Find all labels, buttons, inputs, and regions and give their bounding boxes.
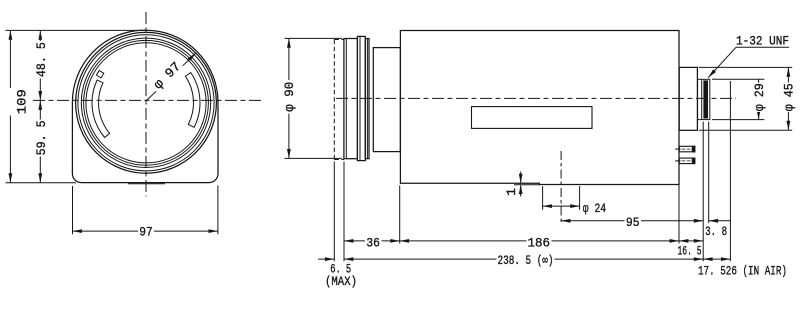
- ext thread start plane: [702, 122, 704, 262]
- dimension phi90: [288, 38, 290, 158]
- bezel ring 4: [84, 40, 209, 165]
- mid barrel: [373, 48, 400, 152]
- text phi29: [753, 83, 766, 113]
- left arc slot: [92, 80, 110, 138]
- ext tick pad bottom: [514, 184, 540, 186]
- leader 1-32 UNF underline: [736, 46, 789, 48]
- text 97: [138, 225, 154, 237]
- main body with bottom pad step: [400, 31, 679, 185]
- text phi45: [782, 83, 795, 113]
- svg-text:3. 8: 3. 8: [705, 224, 727, 239]
- trim ring: [365, 39, 369, 159]
- ext line 97 right: [217, 186, 219, 235]
- ext phi24 left: [542, 186, 544, 210]
- svg-text:95: 95: [626, 215, 640, 230]
- centerline front vertical: [145, 12, 147, 197]
- dimension phi29: [758, 79, 760, 119]
- svg-text:59. 5: 59. 5: [34, 120, 49, 155]
- text 186: [527, 236, 552, 248]
- ext line 97 left: [72, 186, 74, 234]
- ext phi90 top: [285, 37, 343, 39]
- ext phi29 top: [712, 78, 764, 80]
- svg-text:16. 5: 16. 5: [678, 244, 702, 259]
- front view body outline: [72, 30, 218, 182]
- thread barrel 1-32 UNF: [698, 79, 710, 119]
- dimension 3.8 tail: [709, 220, 731, 222]
- svg-text:48. 5: 48. 5: [34, 42, 49, 77]
- text 95: [625, 216, 642, 228]
- pin 2: [675, 158, 695, 164]
- svg-text:186: 186: [528, 236, 551, 251]
- pin 1: [675, 146, 695, 152]
- label plate: [472, 107, 593, 129]
- phi90 barrel: [357, 36, 365, 160]
- svg-text:φ 45: φ 45: [782, 83, 797, 111]
- bezel ring 5: [86, 43, 206, 163]
- dimension 109: [9, 30, 11, 182]
- svg-text:(MAX): (MAX): [325, 274, 357, 289]
- phi90 barrel inner line: [359, 36, 361, 160]
- dimension 1 upper arrow: [520, 172, 522, 184]
- rear flange: [679, 67, 697, 130]
- ext phi24 right: [579, 186, 581, 210]
- dimension phi45: [787, 67, 789, 130]
- ext flange left: [678, 130, 680, 243]
- right arc slot: [185, 73, 200, 128]
- svg-text:φ 90: φ 90: [282, 82, 297, 112]
- svg-text:17. 526 (IN AIR): 17. 526 (IN AIR): [698, 264, 787, 279]
- ext phi90 bottom: [285, 157, 343, 159]
- ext phi45 top: [699, 66, 792, 68]
- side view dashed protruded element: [334, 40, 344, 160]
- svg-text:97: 97: [139, 224, 153, 239]
- centerline side axis: [336, 97, 736, 99]
- centerline phi24 slot: [560, 151, 562, 225]
- dimension 36: [344, 240, 400, 242]
- thread start line: [701, 79, 703, 119]
- ext 6.5 right / front face: [343, 162, 345, 262]
- bezel chamfer line: [345, 39, 347, 159]
- ext 6.5 left: [333, 162, 335, 262]
- ext phi29 bottom: [712, 119, 764, 121]
- phi97 leader line: [146, 53, 196, 101]
- ext line bottom of front view: [6, 182, 77, 184]
- thread hatching: [703, 80, 708, 118]
- svg-text:36: 36: [366, 235, 380, 250]
- centerline front horizontal: [33, 99, 262, 101]
- dimension 48.5: [39, 30, 41, 100]
- ext thread end plane: [708, 122, 710, 223]
- ext body front: [399, 186, 401, 244]
- svg-text:238. 5 (∞): 238. 5 (∞): [498, 253, 554, 268]
- text 238.5 inf: [497, 253, 555, 265]
- dimension 6.5 arrow: [318, 258, 334, 260]
- dimension 1 lower arrow: [520, 185, 522, 197]
- dimension phi24: [543, 205, 580, 207]
- svg-text:φ 29: φ 29: [752, 83, 767, 111]
- text 59.5: [34, 120, 47, 157]
- svg-text:109: 109: [15, 89, 30, 114]
- dimension 17.526: [703, 258, 730, 260]
- ext line top of front view: [6, 29, 147, 31]
- svg-text:1: 1: [504, 188, 519, 196]
- svg-text:φ 97: φ 97: [151, 59, 184, 92]
- bezel ring 2: [78, 35, 214, 171]
- dimension 97: [73, 230, 218, 232]
- image plane line: [729, 81, 731, 261]
- dimension 59.5: [39, 100, 41, 182]
- front bezel outer circle: [76, 32, 217, 173]
- dimension 95: [561, 220, 703, 222]
- text 36: [365, 236, 382, 248]
- dimension 238.5: [344, 258, 703, 260]
- svg-text:1-32 UNF: 1-32 UNF: [736, 34, 789, 49]
- svg-text:φ 24: φ 24: [583, 201, 606, 216]
- bezel ring 3: [81, 38, 210, 167]
- leader 1-32 UNF arrow: [708, 47, 736, 77]
- front boss line at bottom: [128, 183, 165, 185]
- ext phi45 bottom: [699, 129, 792, 131]
- dimension 16.5: [679, 240, 703, 242]
- index square mark: [96, 70, 103, 77]
- text phi90: [283, 80, 296, 114]
- front bezel ring side: [344, 39, 358, 159]
- trim ring line: [366, 39, 368, 159]
- text 48.5: [34, 41, 47, 79]
- dimension 186: [400, 240, 679, 242]
